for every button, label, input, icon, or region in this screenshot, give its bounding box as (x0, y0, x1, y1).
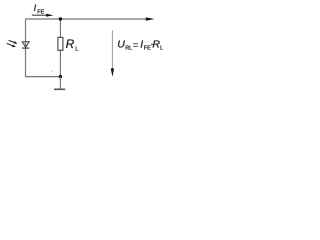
svg-text:I: I (34, 3, 37, 13)
svg-text:R: R (66, 37, 75, 51)
svg-text:U: U (117, 38, 125, 50)
svg-text:=: = (133, 40, 139, 51)
svg-text:FE: FE (37, 9, 44, 15)
svg-text:I: I (140, 38, 143, 50)
svg-text:RL: RL (125, 45, 132, 51)
svg-text:L: L (160, 45, 163, 51)
